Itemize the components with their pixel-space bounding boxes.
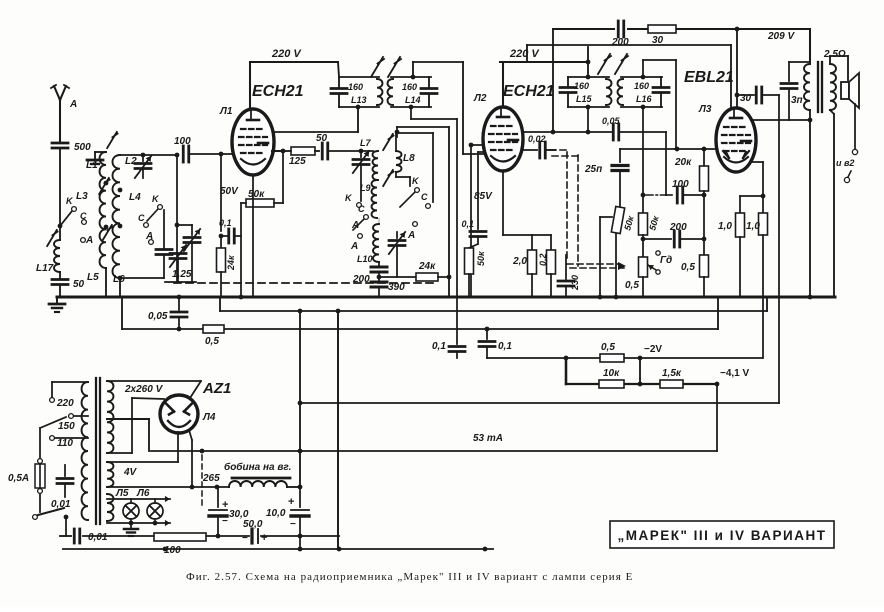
coil L2 L4 L6 (113, 155, 123, 278)
label L4 (129, 192, 141, 203)
svg-text:A: A (145, 231, 153, 242)
switch contact K osc-l (345, 193, 361, 207)
svg-text:L4: L4 (129, 192, 141, 203)
band switch slash osc1 (383, 134, 393, 150)
svg-text:0,5A: 0,5A (8, 473, 29, 484)
trimmer osc 1 (353, 151, 369, 201)
svg-text:0,1: 0,1 (432, 341, 446, 352)
svg-text:50к: 50к (622, 214, 636, 231)
transformer heater winding (107, 494, 113, 521)
label L1 (86, 160, 98, 171)
label 85V (474, 191, 493, 202)
wire colB bottom (118, 276, 123, 297)
tube U1 ECH21 (232, 109, 274, 175)
svg-text:+: + (261, 532, 267, 544)
wire screen drop EBL (730, 45, 732, 108)
svg-text:A: A (69, 99, 77, 110)
svg-text:L5: L5 (87, 272, 99, 283)
label Л5 Л6 (115, 488, 150, 499)
svg-text:150: 150 (58, 421, 75, 432)
transformer HV secondary (107, 381, 113, 453)
svg-text:220: 220 (56, 398, 74, 409)
svg-text:K: K (345, 193, 353, 203)
label 53mA (200, 433, 503, 453)
label ECH21 first (252, 83, 304, 100)
svg-text:−: − (242, 533, 248, 544)
svg-text:0,5: 0,5 (681, 262, 695, 273)
wire AVC column (175, 155, 180, 282)
IF can L14 (388, 75, 437, 110)
svg-text:Гд: Гд (660, 255, 672, 266)
svg-text:A: A (85, 235, 93, 246)
svg-text:50: 50 (316, 133, 328, 144)
wire antenna down (58, 150, 63, 239)
resistor 0,5 ebl (681, 255, 709, 297)
wire 4V top (107, 461, 178, 463)
wire L14 bottom (395, 130, 400, 135)
wire trimmer bottoms (165, 281, 196, 283)
label 2x260V (124, 384, 164, 395)
capacitor 0,05 psu (148, 295, 187, 332)
label Л4 (202, 412, 216, 423)
svg-text:0,1: 0,1 (219, 218, 232, 228)
wire fuse to switch (39, 494, 41, 512)
wire 0,05 drop (665, 132, 667, 195)
title box (610, 521, 834, 548)
label L3 (76, 191, 88, 202)
transformer core (818, 62, 822, 112)
svg-text:ECH21: ECH21 (503, 83, 555, 100)
wire 220V rail right (500, 62, 588, 108)
svg-text:L14: L14 (405, 95, 421, 105)
wire 220V rail left (250, 62, 338, 111)
svg-text:200: 200 (669, 222, 687, 233)
label L2 (125, 156, 137, 167)
filter choke (224, 461, 302, 489)
switch contact C colB (138, 213, 148, 227)
svg-text:L16: L16 (636, 94, 653, 104)
wire bus B4 (487, 357, 762, 359)
svg-text:0,5: 0,5 (205, 336, 219, 347)
capacitor 50 (52, 272, 85, 297)
wire filament right (189, 430, 194, 489)
rectifier AZ1 (160, 395, 198, 433)
trimmer osc 2 (379, 218, 405, 277)
svg-text:2,5Ω: 2,5Ω (823, 49, 846, 60)
band switch slash 3 (99, 178, 109, 194)
dashed AVC line 2 (550, 150, 624, 268)
switch contact A (81, 235, 94, 246)
svg-text:L3: L3 (76, 191, 88, 202)
label L6 (113, 274, 125, 285)
transformer primary (52, 382, 88, 520)
wire bus B2 (220, 297, 767, 311)
dashed measure line (201, 455, 203, 508)
fuse 0,5A (8, 459, 45, 494)
svg-text:бобина на вг.: бобина на вг. (224, 461, 291, 473)
potentiometer Гд (625, 251, 672, 297)
svg-text:−: − (290, 519, 296, 530)
speaker (830, 56, 859, 108)
capacitor 200 top (611, 21, 629, 48)
wire L14 grid link (413, 62, 486, 154)
capacitor 30 ebl (735, 87, 779, 104)
wire tube2 screen stub (469, 143, 483, 148)
coil L10 (357, 224, 379, 264)
svg-text:0,05: 0,05 (148, 311, 168, 322)
svg-text:160: 160 (402, 82, 417, 92)
wire L14 avc link (411, 107, 457, 119)
label 160 L13 (348, 82, 367, 105)
capacitor colB (120, 210, 172, 278)
svg-text:50V: 50V (220, 186, 239, 197)
wire top rail (553, 27, 810, 32)
svg-text:20к: 20к (674, 157, 692, 168)
switch contact K (66, 196, 76, 211)
capacitor 50 coupling (315, 133, 361, 159)
node mixer out (272, 149, 285, 154)
lamp Л5 (123, 499, 139, 523)
svg-text:24к: 24к (418, 261, 436, 272)
wire cap right to bus (239, 203, 244, 299)
svg-text:Л5: Л5 (115, 488, 129, 499)
svg-text:160: 160 (634, 81, 649, 91)
resistor 20к (674, 149, 709, 255)
svg-text:1,5к: 1,5к (662, 368, 682, 379)
capacitor 100 input (174, 136, 234, 162)
svg-text:0,01: 0,01 (88, 532, 108, 543)
label 220V right (509, 48, 540, 60)
svg-text:3п: 3п (791, 95, 803, 106)
svg-text:0,5: 0,5 (601, 342, 615, 353)
svg-text:Фиг. 2.57. Схема на радиоприем: Фиг. 2.57. Схема на радиоприемника „Маре… (186, 571, 633, 583)
svg-text:4V: 4V (123, 467, 138, 478)
svg-text:−: − (222, 516, 228, 527)
resistor 125 (283, 147, 315, 167)
svg-text:L2: L2 (125, 156, 137, 167)
svg-text:0,5: 0,5 (625, 280, 639, 291)
transformer output secondary (830, 56, 836, 114)
mains switch (33, 508, 69, 536)
terminal в2 b (844, 171, 851, 183)
wire switch C right drop (432, 133, 434, 202)
svg-text:53 mA: 53 mA (473, 433, 503, 444)
svg-text:30: 30 (652, 35, 664, 46)
coil L17 (36, 240, 60, 274)
svg-text:и в2: и в2 (836, 158, 854, 168)
svg-text:0,05: 0,05 (602, 116, 621, 126)
svg-text:50: 50 (73, 279, 85, 290)
wire L8 to K (396, 172, 410, 186)
label 209V (767, 31, 795, 42)
ground lamps (124, 523, 138, 536)
wire screen line y45 (527, 45, 731, 62)
switch contact C (80, 211, 87, 224)
svg-text:1,25: 1,25 (172, 269, 192, 280)
wire bottom rail B7 (60, 535, 339, 537)
wire L1 top to ground (95, 152, 106, 159)
label 50V (220, 186, 239, 197)
band switch slash 4 (102, 225, 112, 241)
wire B+ line (107, 485, 229, 490)
label -4,1V (720, 368, 750, 379)
wire transformer primary drop (808, 120, 813, 299)
label ECH21 second (503, 83, 555, 100)
capacitor 200 ebl (643, 222, 706, 247)
coil L7 (360, 138, 378, 180)
wire bus B5 (300, 402, 779, 404)
antenna A (51, 85, 69, 141)
IF can L15 (560, 75, 611, 110)
resistor 1,0 b (746, 213, 768, 358)
svg-text:−2V: −2V (644, 344, 662, 355)
label -2V (644, 344, 662, 355)
tap 220 (50, 398, 75, 409)
svg-text:+: + (222, 499, 228, 511)
wire selector down (39, 428, 41, 458)
trimmer capacitor A (177, 225, 200, 282)
band switch slash osc2 (383, 170, 393, 186)
capacitor 0,05 if (602, 116, 666, 140)
capacitor 0,1 bias1 (432, 119, 465, 358)
coil L9 (360, 180, 377, 218)
wire cathode down (252, 175, 254, 297)
capacitor 390 osc (371, 272, 405, 297)
svg-text:100: 100 (174, 136, 191, 147)
wire tube2 k stub (478, 151, 483, 153)
wire bias bottom (566, 356, 717, 387)
capacitor 200 osc (352, 262, 387, 285)
capacitor 0,01 mains (51, 465, 73, 510)
svg-text:K: K (66, 196, 74, 206)
wire 30cap drop (778, 95, 780, 403)
node osc in (359, 149, 364, 154)
svg-text:1,0: 1,0 (746, 221, 760, 232)
gang dashed link (174, 282, 434, 284)
coil L1 L3 L5 (100, 152, 109, 268)
svg-text:0,02: 0,02 (528, 134, 546, 144)
label 2,5Ω (823, 49, 846, 60)
potentiometer 50к volume (598, 206, 636, 299)
wire anode rail riser (552, 29, 554, 132)
terminal в2 a (852, 149, 857, 154)
svg-text:1,0: 1,0 (718, 221, 732, 232)
svg-text:0,1: 0,1 (498, 341, 512, 352)
svg-text:500: 500 (74, 142, 91, 153)
wire speaker bottom (854, 104, 856, 148)
svg-text:10к: 10к (603, 368, 620, 379)
capacitor 500 (52, 142, 91, 153)
wire rail corner (586, 47, 591, 77)
wire colA bottom (105, 268, 107, 297)
svg-text:2x260 V: 2x260 V (124, 384, 164, 395)
trimmer capacitor L2 (135, 155, 151, 178)
label AZ1 (202, 380, 231, 397)
transformer core psu (96, 378, 100, 524)
trimmer slash L13 (371, 57, 401, 77)
IF can L16 (618, 75, 669, 110)
svg-text:L9: L9 (360, 183, 371, 193)
resistor 24к osc (379, 261, 451, 281)
resistor 24к tube1 (217, 236, 237, 297)
wire B+ riser (298, 309, 303, 487)
svg-text:L1: L1 (86, 160, 98, 171)
caption (186, 571, 633, 583)
trimmer capacitor 1,25 (170, 245, 192, 282)
label 265 (202, 473, 220, 484)
potentiometer 50к 2 (639, 213, 661, 235)
wire anode to L13 (274, 107, 358, 132)
wire bottom rail B8 (63, 547, 493, 552)
wire bus B3 (122, 297, 718, 329)
wire grid line EBL (620, 147, 716, 152)
wire filament left (177, 432, 179, 462)
wire L15 bottom (587, 107, 589, 132)
tap 110 (50, 436, 88, 449)
wire 53mA return (151, 450, 717, 452)
svg-text:C: C (80, 211, 87, 221)
svg-text:−4,1 V: −4,1 V (720, 368, 750, 379)
wire rail into L13 (338, 62, 339, 77)
switch contact K osc-r (400, 176, 420, 207)
label 160 L16 (634, 81, 653, 104)
svg-text:125: 125 (289, 156, 306, 167)
svg-text:K: K (152, 194, 160, 204)
svg-text:K: K (412, 176, 420, 186)
svg-text:0,1: 0,1 (461, 219, 474, 229)
wire pot2 bottom (641, 235, 646, 257)
transformer 4V winding (107, 462, 138, 487)
svg-text:A: A (351, 220, 359, 231)
ground (49, 297, 65, 312)
svg-text:50к: 50к (476, 251, 486, 266)
transformer output primary (804, 29, 810, 120)
svg-text:230: 230 (570, 275, 580, 291)
svg-text:EBL21: EBL21 (684, 69, 734, 86)
label tube Л1 (219, 106, 233, 117)
dash-dot 100 line (646, 194, 672, 196)
resistor 50к tube2 (461, 152, 486, 297)
wire HV centre tap (107, 419, 149, 451)
svg-text:50,0: 50,0 (243, 519, 263, 530)
resistor 1,0 a (718, 162, 765, 297)
label 220V left (271, 48, 302, 60)
svg-text:160: 160 (348, 82, 363, 92)
svg-text:50к: 50к (248, 189, 265, 200)
trimmer slash L15 (598, 54, 628, 74)
wire grid left column (220, 154, 222, 231)
switch contact K colB (147, 194, 162, 221)
wire top node (120, 153, 179, 158)
tap 150 (58, 414, 88, 432)
capacitor 0,1 bias b (479, 327, 512, 358)
capacitor 30,0 (209, 487, 249, 538)
svg-text:C: C (421, 192, 428, 202)
resistor 2,0 (503, 171, 537, 297)
svg-text:0,2: 0,2 (538, 253, 548, 266)
svg-text:C: C (358, 204, 365, 214)
svg-text:160: 160 (574, 81, 589, 91)
wire heater bottom (107, 520, 170, 526)
wire bottom cap link (60, 535, 66, 537)
label 160 L15 (574, 81, 593, 104)
switch contact C osc-l (353, 204, 368, 230)
svg-text:100: 100 (164, 545, 181, 556)
svg-text:L17: L17 (36, 263, 54, 274)
svg-text:30: 30 (740, 93, 752, 104)
label L5 (87, 272, 99, 283)
resistor 1,5к (660, 368, 683, 388)
wire heater top (107, 496, 170, 502)
svg-text:A: A (407, 230, 415, 241)
svg-text:+: + (288, 496, 294, 508)
tube U3 EBL21 (716, 108, 756, 172)
wire EBL anode out (752, 118, 812, 123)
svg-text:0,01: 0,01 (51, 499, 71, 510)
capacitor 10,0 (266, 487, 309, 549)
svg-text:L10: L10 (357, 254, 373, 264)
resistor 0,2 (532, 235, 556, 297)
resistor 30 top (648, 25, 676, 46)
label 160 L14 (402, 82, 421, 105)
svg-text:Л3: Л3 (698, 104, 712, 115)
svg-text:Л4: Л4 (202, 412, 216, 423)
wire main ground bus (57, 296, 835, 299)
band switch slash (47, 230, 57, 246)
svg-text:200: 200 (352, 274, 370, 285)
wire HV top to plate (107, 381, 201, 398)
capacitor 0,1 tube1 (219, 218, 241, 243)
svg-text:ECH21: ECH21 (252, 83, 304, 100)
svg-text:209 V: 209 V (767, 31, 795, 42)
switch contact A colB (145, 231, 153, 244)
svg-text:AZ1: AZ1 (202, 380, 231, 397)
svg-text:200: 200 (611, 37, 629, 48)
switch lever antenna (60, 211, 72, 226)
svg-text:Л1: Л1 (219, 106, 233, 117)
resistor 50к tube1 (241, 151, 283, 207)
wire -4,1 drop (715, 382, 720, 451)
svg-text:25п: 25п (584, 164, 602, 175)
svg-text:Л6: Л6 (136, 488, 150, 499)
svg-text:A: A (350, 241, 358, 252)
label EBL21 (684, 69, 734, 86)
wire screen bypass (470, 145, 472, 297)
band switch slash 2 (107, 132, 117, 148)
wire anode riser EBL (736, 29, 738, 108)
tube U2 ECH21 (483, 107, 523, 171)
ground L1 (87, 160, 103, 164)
capacitor 3п (781, 62, 810, 120)
label tube Л2 (473, 93, 487, 104)
svg-text:390: 390 (388, 282, 405, 293)
svg-text:50к: 50к (647, 214, 661, 231)
svg-text:L13: L13 (351, 95, 367, 105)
label и в2 (836, 158, 854, 168)
svg-text:100: 100 (672, 179, 689, 190)
switch contact A osc-r (407, 222, 417, 241)
svg-text:2,0: 2,0 (512, 256, 527, 267)
dashed AVC line 1 (567, 152, 626, 270)
svg-text:„МАРЕК" III и IV ВАРИАНТ: „МАРЕК" III и IV ВАРИАНТ (618, 528, 827, 543)
svg-text:L7: L7 (360, 138, 371, 148)
wire osc top (397, 127, 449, 137)
wire anode tube2 (522, 130, 611, 135)
wire HV bottom to plate (107, 398, 164, 453)
capacitor 230 (558, 255, 580, 297)
resistor 100 (154, 533, 206, 556)
resistor 0,5 bias (600, 342, 624, 362)
